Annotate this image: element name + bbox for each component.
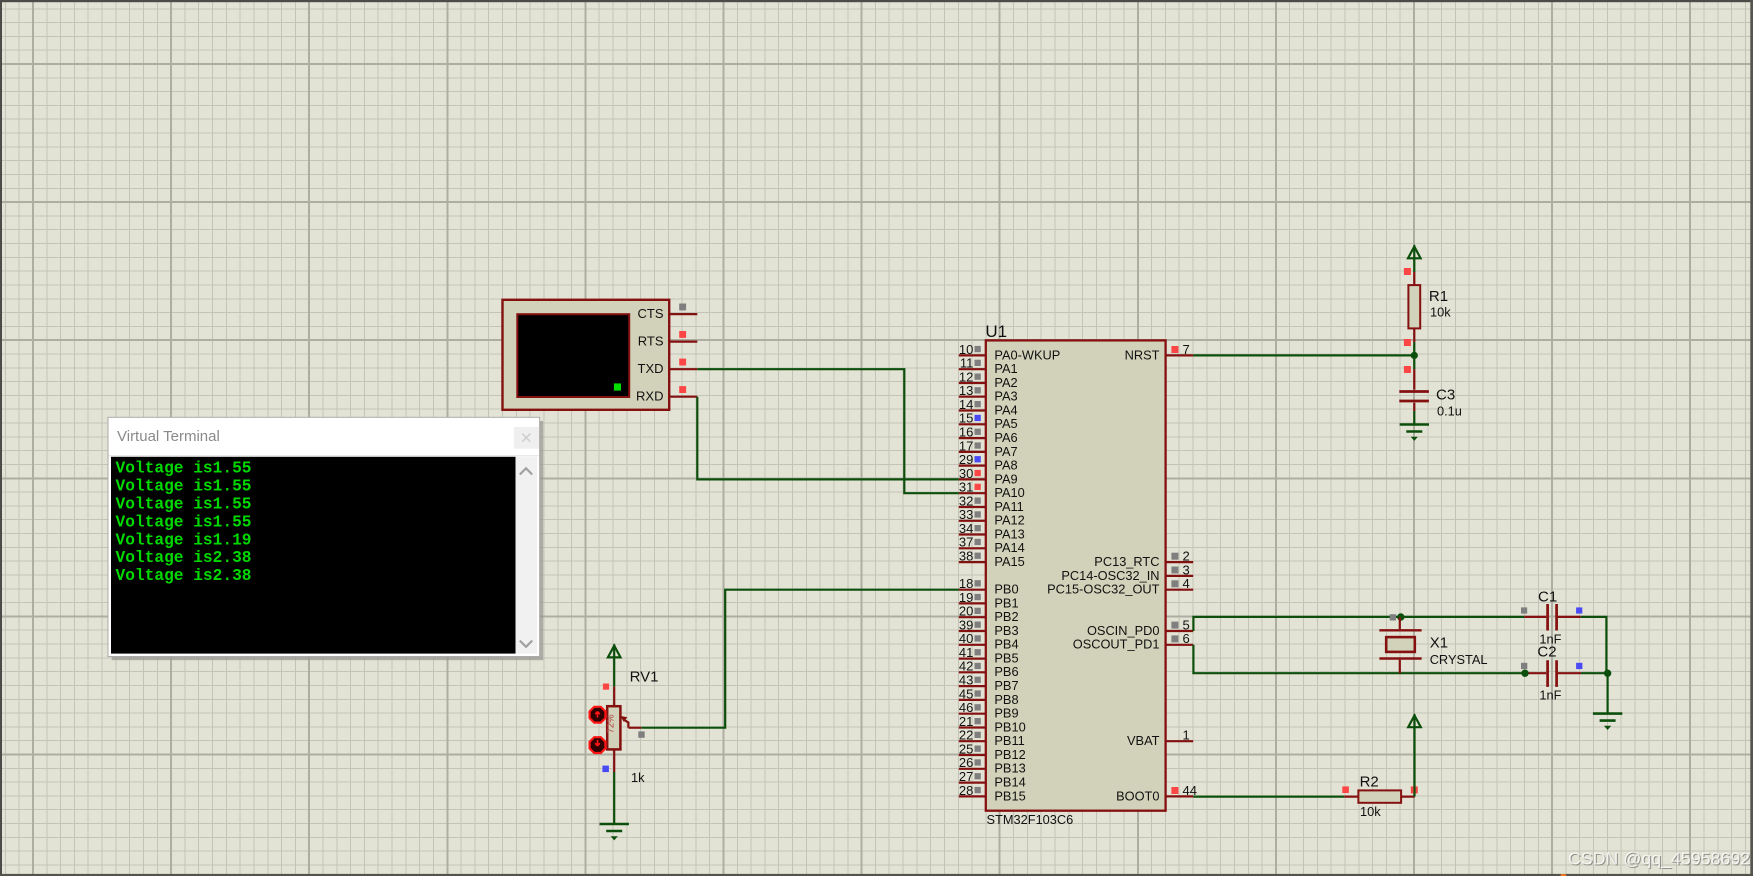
svg-text:C1: C1 (1538, 589, 1557, 606)
svg-text:PC14-OSC32_IN: PC14-OSC32_IN (1061, 568, 1159, 583)
U1 pin 5 OSCIN_PD0 (1087, 617, 1193, 638)
svg-text:1nF: 1nF (1539, 688, 1561, 703)
popup scrollbar (516, 457, 538, 654)
wire C2 to ground node (1581, 672, 1608, 674)
svg-text:OSCOUT_PD1: OSCOUT_PD1 (1073, 637, 1160, 652)
svg-text:Voltage is2.38: Voltage is2.38 (116, 549, 252, 567)
svg-text:PB2: PB2 (994, 609, 1018, 624)
wire R1 to node (1413, 342, 1415, 369)
wire power to RV1 (613, 658, 615, 687)
svg-text:31: 31 (959, 480, 973, 495)
svg-text:PC13_RTC: PC13_RTC (1094, 554, 1159, 569)
U1 pin 22 PB11 (959, 728, 1025, 749)
U1 pin 13 PA3 (959, 383, 1018, 404)
svg-text:10k: 10k (1360, 804, 1381, 819)
svg-text:0.1u: 0.1u (1437, 404, 1462, 419)
svg-text:29: 29 (959, 452, 973, 467)
state square (osc top wire) (1390, 614, 1396, 620)
popup terminal screen (111, 457, 516, 654)
wire NRST net (1193, 354, 1414, 356)
U1 pin 1 VBAT (1127, 728, 1193, 749)
svg-text:BOOT0: BOOT0 (1116, 788, 1159, 803)
U1 pin 37 PA14 (959, 535, 1025, 556)
svg-text:PA11: PA11 (994, 499, 1023, 514)
U1 pin 45 PB8 (959, 686, 1019, 707)
virtual terminal popup window (108, 417, 543, 660)
wire power to R1 (1413, 259, 1415, 273)
svg-text:27: 27 (959, 769, 973, 784)
U1 pin 28 PB15 (959, 783, 1026, 804)
svg-text:PA5: PA5 (994, 416, 1017, 431)
U1 pin 38 PA15 (959, 549, 1025, 570)
U1 pin 40 PB4 (959, 631, 1019, 652)
svg-text:15: 15 (959, 411, 973, 426)
popup terminal text (116, 460, 252, 586)
svg-text:PA8: PA8 (994, 458, 1017, 473)
svg-text:PB7: PB7 (994, 678, 1018, 693)
svg-text:R2: R2 (1360, 773, 1379, 790)
svg-text:PC15-OSC32_OUT: PC15-OSC32_OUT (1047, 582, 1160, 597)
svg-text:10k: 10k (1430, 305, 1451, 320)
svg-text:10: 10 (959, 342, 973, 357)
svg-text:C2: C2 (1537, 644, 1556, 661)
state square (RV1 bottom) (602, 766, 609, 773)
popup title separator (109, 455, 540, 457)
left window edge (0, 0, 2, 876)
resistor R1 (1408, 272, 1420, 342)
svg-text:R1: R1 (1429, 288, 1448, 305)
U1 pin 29 PA8 (959, 452, 1018, 473)
terminal pin RTS (638, 331, 698, 349)
wire OSCIN_PD0 to crystal/C1 (1193, 617, 1524, 631)
svg-text:43: 43 (959, 673, 973, 688)
svg-text:PB8: PB8 (994, 692, 1018, 707)
state square (C2 right) (1576, 663, 1582, 669)
state square (C1 right) (1576, 607, 1582, 613)
svg-text:1: 1 (1183, 728, 1190, 743)
svg-text:PB6: PB6 (994, 664, 1018, 679)
svg-text:PA15: PA15 (994, 554, 1024, 569)
svg-text:46: 46 (959, 700, 973, 715)
svg-text:CRYSTAL: CRYSTAL (1430, 652, 1488, 667)
state square (R1 top) (1404, 268, 1411, 275)
svg-text:14: 14 (959, 397, 973, 412)
svg-text:34: 34 (959, 521, 973, 536)
svg-text:22: 22 (959, 728, 973, 743)
terminal pin TXD (638, 359, 698, 377)
wire TXD to PA10 (697, 369, 959, 493)
power symbol (VCC above RV1) (608, 644, 621, 657)
U1 pin 44 BOOT0 (1116, 783, 1197, 804)
svg-text:30: 30 (959, 466, 973, 481)
svg-text:1k: 1k (631, 770, 645, 785)
svg-text:Voltage is2.38: Voltage is2.38 (116, 567, 252, 585)
state square (node lower) (1404, 366, 1411, 373)
svg-text:PA1: PA1 (994, 361, 1017, 376)
bottom window edge (0, 874, 1753, 876)
U1 pin 27 PB14 (959, 769, 1026, 790)
U1 pin 2 PC13_RTC (1094, 549, 1193, 570)
svg-text:RXD: RXD (636, 389, 663, 404)
state square (RV1 wiper) (638, 731, 644, 737)
svg-text:PB11: PB11 (994, 733, 1024, 748)
svg-text:PA14: PA14 (994, 540, 1024, 555)
svg-text:Voltage is1.55: Voltage is1.55 (116, 496, 252, 514)
svg-text:3: 3 (1183, 562, 1190, 577)
U1 pin 41 PB5 (959, 645, 1019, 666)
svg-text:PA4: PA4 (994, 402, 1017, 417)
U1 pin 6 OSCOUT_PD1 (1073, 631, 1193, 652)
wire node to ground (1606, 673, 1608, 712)
svg-text:RV1: RV1 (630, 668, 659, 685)
svg-text:PB14: PB14 (994, 775, 1025, 790)
svg-text:NRST: NRST (1125, 347, 1160, 362)
U1 pin 26 PB13 (959, 755, 1026, 776)
U1 pin 21 PB10 (959, 714, 1026, 735)
svg-text:PB1: PB1 (994, 595, 1018, 610)
svg-text:PA6: PA6 (994, 430, 1017, 445)
state square (C2 left) (1521, 663, 1527, 669)
wire RV1 to ground (613, 772, 615, 823)
resistor R2 (1344, 790, 1414, 802)
svg-text:U1: U1 (985, 322, 1007, 341)
U1 pin 15 PA5 (959, 411, 1018, 432)
svg-text:PB12: PB12 (994, 747, 1025, 762)
svg-text:13: 13 (959, 383, 973, 398)
svg-text:Voltage is1.55: Voltage is1.55 (116, 513, 252, 531)
capacitor C3 (1399, 369, 1429, 411)
svg-text:PB15: PB15 (994, 788, 1025, 803)
U1 pin 34 PA13 (959, 521, 1025, 542)
bottom orange sliver (1561, 874, 1566, 876)
svg-text:X1: X1 (1430, 635, 1448, 652)
U1 pin 46 PB9 (959, 700, 1019, 721)
svg-text:28: 28 (959, 783, 973, 798)
svg-text:42: 42 (959, 659, 973, 674)
ground (below C3) (1400, 425, 1429, 432)
U1 pin 11 PA1 (959, 356, 1018, 377)
svg-text:PA9: PA9 (994, 471, 1017, 486)
svg-text:Voltage is1.55: Voltage is1.55 (116, 460, 252, 478)
virtual terminal instrument VT1 body (503, 300, 670, 410)
svg-text:TXD: TXD (638, 361, 664, 376)
capacitor C1 (1524, 604, 1581, 631)
svg-text:6: 6 (1183, 631, 1190, 646)
wire R2 to power (1413, 727, 1415, 796)
svg-text:PA10: PA10 (994, 485, 1024, 500)
U1 pin 39 PB3 (959, 617, 1019, 638)
top window edge (0, 0, 1753, 2)
watermark (1568, 849, 1751, 871)
svg-text:Voltage is1.55: Voltage is1.55 (116, 478, 252, 496)
wire RV1 wiper to PB0 (641, 590, 959, 728)
svg-text:Virtual Terminal: Virtual Terminal (117, 428, 220, 445)
terminal pin RXD (636, 386, 697, 404)
svg-text:39: 39 (959, 617, 973, 632)
svg-text:25: 25 (959, 741, 973, 756)
virtual terminal screen (517, 314, 629, 397)
terminal pin CTS (638, 304, 698, 322)
U1 pin 25 PB12 (959, 741, 1026, 762)
state square (R2 right) (1411, 786, 1418, 793)
potentiometer RV1 (606, 687, 642, 772)
svg-text:STM32F103C6: STM32F103C6 (987, 812, 1074, 827)
state square (RV1 top) (603, 684, 609, 690)
U1 pin 31 PA10 (959, 480, 1025, 501)
U1 pin 33 PA12 (959, 507, 1025, 528)
U1 pin 10 PA0-WKUP (959, 342, 1060, 363)
svg-text:PB13: PB13 (994, 761, 1025, 776)
state square (R2 left) (1342, 786, 1349, 793)
U1 pin 42 PB6 (959, 659, 1019, 680)
wire RXD to PA9 (697, 397, 959, 480)
svg-text:PA0-WKUP: PA0-WKUP (994, 347, 1060, 362)
RV1 up adjust button (590, 707, 606, 723)
state square (C1 left) (1521, 607, 1527, 613)
svg-text:C3: C3 (1436, 387, 1455, 404)
svg-text:19: 19 (959, 590, 973, 605)
svg-text:Voltage is1.19: Voltage is1.19 (116, 531, 252, 549)
ground (crystal net) (1593, 714, 1622, 721)
node junction C2 left (1521, 670, 1528, 677)
terminal screen cursor block (614, 383, 621, 390)
svg-text:PB3: PB3 (994, 623, 1018, 638)
svg-text:20: 20 (959, 604, 973, 619)
svg-text:38: 38 (959, 549, 973, 564)
U1 pin 4 PC15-OSC32_OUT (1047, 576, 1193, 597)
state square (node upper) (1404, 339, 1411, 346)
svg-text:11: 11 (960, 356, 974, 371)
U1 pin 18 PB0 (959, 576, 1019, 597)
node junction NRST/R1/C3 (1411, 352, 1418, 359)
svg-text:32: 32 (959, 493, 973, 508)
U1 pin 43 PB7 (959, 673, 1019, 694)
node junction crystal top (1397, 613, 1404, 620)
svg-text:16: 16 (959, 425, 973, 440)
wire C3 to ground (1413, 411, 1415, 424)
svg-text:7: 7 (1183, 342, 1190, 357)
U1 pin 16 PA6 (959, 425, 1018, 446)
U1 pin 32 PA11 (959, 493, 1024, 514)
RV1 down adjust button (590, 737, 606, 753)
U1 pin 17 PA7 (959, 438, 1018, 459)
svg-text:2: 2 (1183, 549, 1190, 564)
U1 pin 12 PA2 (959, 369, 1018, 390)
svg-text:CTS: CTS (638, 306, 664, 321)
svg-text:VBAT: VBAT (1127, 733, 1160, 748)
ground (below RV1) (600, 824, 629, 831)
mcu U1 body (986, 340, 1166, 810)
svg-text:45: 45 (959, 686, 973, 701)
svg-text:OSCIN_PD0: OSCIN_PD0 (1087, 623, 1160, 638)
svg-text:26: 26 (959, 755, 973, 770)
popup close button (514, 427, 539, 449)
node junction ground corner (1604, 670, 1611, 677)
U1 pin 3 PC14-OSC32_IN (1061, 562, 1193, 583)
wire C1 to ground corner (1581, 617, 1607, 673)
svg-text:40: 40 (959, 631, 973, 646)
U1 pin 30 PA9 (959, 466, 1018, 487)
svg-text:5: 5 (1183, 617, 1190, 632)
power symbol (VCC above R1) (1408, 245, 1421, 258)
U1 pin 14 PA4 (959, 397, 1018, 418)
U1 pin 7 NRST (1125, 342, 1194, 363)
svg-text:72%: 72% (606, 714, 617, 734)
power symbol (VCC above R2) (1408, 714, 1421, 727)
svg-text:PB4: PB4 (994, 637, 1018, 652)
svg-text:PB9: PB9 (994, 706, 1018, 721)
wire BOOT0 to R2 (1193, 795, 1344, 797)
U1 pin 20 PB2 (959, 604, 1019, 625)
svg-text:4: 4 (1183, 576, 1190, 591)
svg-text:PA3: PA3 (994, 389, 1017, 404)
right window edge (1750, 0, 1753, 876)
svg-text:PA13: PA13 (994, 526, 1024, 541)
svg-text:CSDN @qq_45958692: CSDN @qq_45958692 (1568, 849, 1750, 870)
wire OSCOUT_PD1 to crystal/C2 (1193, 645, 1525, 673)
crystal X1 (1379, 617, 1421, 673)
capacitor C2 (1525, 660, 1581, 687)
U1 pin 19 PB1 (959, 590, 1019, 611)
svg-text:RTS: RTS (638, 334, 664, 349)
svg-text:37: 37 (959, 535, 973, 550)
